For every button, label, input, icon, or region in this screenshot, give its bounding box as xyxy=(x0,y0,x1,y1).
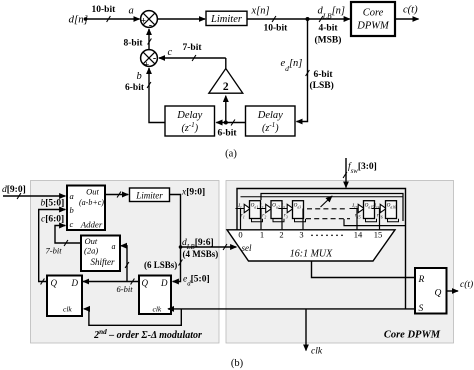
svg-text:R: R xyxy=(418,275,425,285)
svg-text:10-bit: 10-bit xyxy=(92,5,117,15)
svg-text:clk: clk xyxy=(153,305,162,314)
svg-text:clk: clk xyxy=(311,347,323,357)
delay cell 16 input wire xyxy=(372,208,381,210)
wire e_d[n] feedback down to right Delay xyxy=(297,19,308,122)
svg-text:7-bit: 7-bit xyxy=(183,43,203,53)
svg-text:(6 LSBs): (6 LSBs) xyxy=(144,260,177,270)
shaded panel sigma-delta modulator xyxy=(31,181,220,344)
delay cell 3 bottom wire jog xyxy=(295,219,306,222)
left flip-flop box xyxy=(47,276,82,317)
summing junction S2 xyxy=(141,50,158,71)
svg-text:(4 MSBs): (4 MSBs) xyxy=(183,249,219,259)
svg-text:16:1 MUX: 16:1 MUX xyxy=(290,249,333,260)
svg-text:c: c xyxy=(70,219,74,229)
svg-text:a: a xyxy=(112,242,116,251)
wire d[9:0] into Adder a xyxy=(3,195,65,197)
svg-text:0: 0 xyxy=(238,230,242,240)
svg-text:Core DPWM: Core DPWM xyxy=(384,330,441,341)
svg-text:c: c xyxy=(168,47,173,58)
svg-text:(2a): (2a) xyxy=(84,245,98,255)
bottom right chain wire xyxy=(344,219,406,226)
ellipsis dots between taps xyxy=(311,234,313,236)
delay cell 3 latch box xyxy=(293,201,304,219)
svg-text:3: 3 xyxy=(299,230,303,240)
svg-text:x[n]: x[n] xyxy=(251,6,270,17)
delay line outer box xyxy=(237,189,406,309)
left Delay box (a) xyxy=(165,106,215,136)
shaded panel Core DPWM xyxy=(226,181,454,344)
wire b feedback from left FF Q to Adder b xyxy=(39,210,66,282)
svg-text:2: 2 xyxy=(279,230,283,240)
wire 8-bit S2 to S1 xyxy=(148,29,150,50)
junction dot sel branch xyxy=(179,245,183,249)
svg-text:b: b xyxy=(137,71,142,82)
delay cell 2 bottom wire jog xyxy=(273,219,284,222)
svg-text:Limiter: Limiter xyxy=(135,190,163,200)
gain amplifier triangle x2 xyxy=(209,69,243,94)
svg-text:8-bit: 8-bit xyxy=(124,39,144,49)
wire c 7-bit into S2 xyxy=(159,57,226,59)
delay cell 15 buffer triangle xyxy=(358,204,364,212)
wire right Delay to left Delay with junction xyxy=(216,122,245,124)
delay line top bus xyxy=(241,196,404,198)
wire clk main from delay line to right FF clk xyxy=(168,308,415,310)
svg-text:c[6:0]: c[6:0] xyxy=(41,215,64,225)
delay cell 16 buffer triangle xyxy=(380,204,386,212)
svg-text:c(t): c(t) xyxy=(460,279,473,290)
svg-text:Core: Core xyxy=(363,8,384,19)
delay cell 1 buffer triangle xyxy=(244,204,250,212)
svg-text:c(t): c(t) xyxy=(403,5,418,16)
adjustable delay diagonal arrow xyxy=(321,196,333,207)
delay cell 3 input wire xyxy=(279,208,288,210)
wire Shifter out to Adder c 7-bit xyxy=(55,226,81,244)
wire tap to Shifter a input xyxy=(121,246,127,282)
wire 6-bit right FF Q to left FF D xyxy=(83,281,139,283)
svg-text:Q: Q xyxy=(142,278,149,288)
Limiter box (b) xyxy=(130,188,170,202)
wire S1 to Limiter xyxy=(157,18,205,20)
svg-text:a: a xyxy=(129,6,134,17)
delay cell 1 latch box xyxy=(250,201,261,219)
svg-text:D: D xyxy=(160,278,168,288)
svg-text:15: 15 xyxy=(374,230,383,240)
right Delay box (a) xyxy=(246,106,296,136)
node junction dot on x[n] xyxy=(306,17,310,21)
delay cell 15 latch box xyxy=(364,201,375,219)
SR latch box xyxy=(415,268,447,314)
wire b left Delay output to S2 xyxy=(149,68,165,123)
svg-text:6-bit: 6-bit xyxy=(125,83,145,93)
svg-text:b[5:0]: b[5:0] xyxy=(41,199,65,209)
wire x[9:0] down split to e_d[5:0] into right FF D xyxy=(170,195,181,282)
delay cell 15 bottom wire jog xyxy=(366,219,377,222)
Core DPWM box (a) xyxy=(351,2,395,36)
svg-text:(LSB): (LSB) xyxy=(310,80,334,91)
wire c(t) output (a) xyxy=(395,18,419,20)
delay cell 15 input wire xyxy=(350,208,359,210)
wire fsw input down xyxy=(345,158,347,188)
svg-text:4-bit: 4-bit xyxy=(319,24,339,34)
svg-text:S: S xyxy=(419,304,424,314)
svg-text:d[9:0]: d[9:0] xyxy=(2,185,26,195)
wire c(t) output (b) xyxy=(447,290,459,292)
delay cell 1 input wire xyxy=(236,208,245,210)
dashed continuation line upper xyxy=(307,208,347,210)
wire Adder out to Limiter xyxy=(105,194,128,196)
wire x[n] Limiter to node with slashes xyxy=(247,18,350,20)
right flip-flop box xyxy=(139,276,171,315)
svg-text:x[9:0]: x[9:0] xyxy=(181,187,205,197)
svg-text:6-bit: 6-bit xyxy=(117,284,134,294)
svg-text:Out: Out xyxy=(86,186,99,196)
delay cell 16 bottom wire jog xyxy=(388,219,399,222)
svg-text:D: D xyxy=(71,278,79,288)
svg-text:Limiter: Limiter xyxy=(210,14,243,25)
delay cell 2 input wire xyxy=(257,208,266,210)
delay cell 16 latch box xyxy=(386,201,397,219)
delay cell 2 latch box xyxy=(271,201,282,219)
svg-text:Delay: Delay xyxy=(176,110,202,121)
delay cell 1 bottom wire jog xyxy=(252,219,263,222)
svg-text:Delay: Delay xyxy=(257,110,283,121)
svg-text:Adder: Adder xyxy=(80,219,103,229)
svg-text:d[n]: d[n] xyxy=(69,14,89,26)
wire d[n] input with source dot and 10-bit slash xyxy=(84,17,88,21)
16:1 MUX trapezoid xyxy=(227,230,395,261)
svg-text:2: 2 xyxy=(223,81,229,93)
svg-text:-: - xyxy=(153,53,156,64)
svg-text:10-bit: 10-bit xyxy=(264,24,289,34)
svg-text:(a-b+c): (a-b+c) xyxy=(79,198,104,207)
wire junction up into gain amplifier xyxy=(225,96,227,123)
svg-text:Shifter: Shifter xyxy=(91,257,115,267)
Adder box xyxy=(67,186,105,231)
svg-text:+: + xyxy=(141,17,146,27)
delay cell 2 buffer triangle xyxy=(266,204,272,212)
svg-text:b: b xyxy=(70,205,74,215)
delay line inner top line xyxy=(261,194,403,222)
svg-text:(a): (a) xyxy=(225,149,237,160)
delay cell 3 buffer triangle xyxy=(287,204,293,212)
dashed continuation line lower xyxy=(306,218,350,220)
svg-text:Q: Q xyxy=(435,289,442,299)
svg-text:clk: clk xyxy=(63,305,72,314)
svg-text:DPWM: DPWM xyxy=(356,21,390,32)
Limiter box (a) xyxy=(206,11,247,25)
wire sel d_LB[9:6] to MUX xyxy=(181,246,237,248)
svg-text:sel: sel xyxy=(242,243,252,253)
summing junction S1 xyxy=(141,11,158,32)
svg-text:(MSB): (MSB) xyxy=(315,35,342,46)
svg-text:a: a xyxy=(70,191,74,201)
svg-text:Q: Q xyxy=(51,278,58,288)
Shifter box xyxy=(81,236,120,272)
svg-text:(b): (b) xyxy=(231,358,244,369)
tap wires down to MUX inputs xyxy=(240,209,242,230)
svg-text:Out: Out xyxy=(85,236,98,246)
wire clk output down arrow xyxy=(305,309,307,351)
wire clk detour to left FF clk xyxy=(84,309,182,325)
svg-text:7-bit: 7-bit xyxy=(46,246,63,256)
svg-text:14: 14 xyxy=(354,230,363,240)
svg-text:2nd – order Σ-Δ modulator: 2nd – order Σ-Δ modulator xyxy=(93,328,202,341)
svg-text:1: 1 xyxy=(260,230,264,240)
svg-text:6-bit: 6-bit xyxy=(314,70,334,80)
svg-text:6-bit: 6-bit xyxy=(218,129,238,139)
wire amplifier output up xyxy=(225,58,227,69)
wire MUX output to R input xyxy=(312,261,416,278)
